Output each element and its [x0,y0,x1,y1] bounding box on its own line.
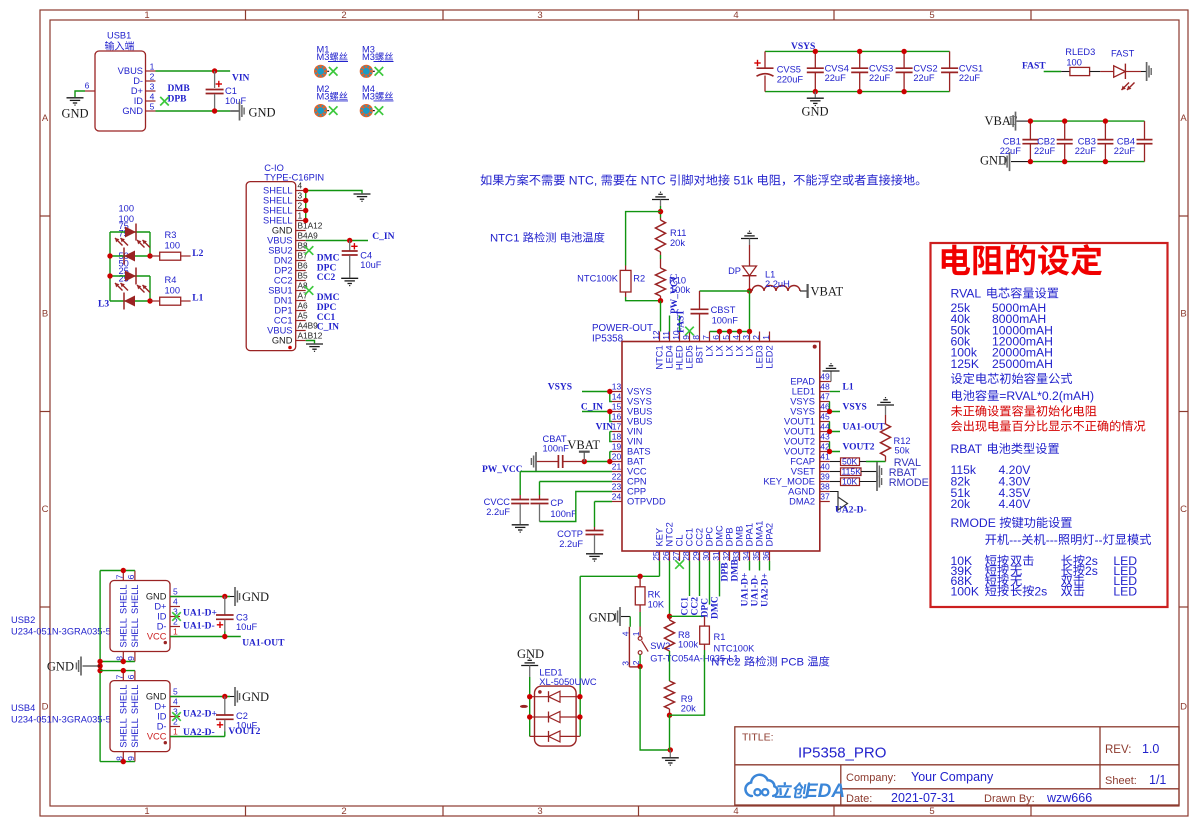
capacitor CVS5 220uF [754,51,803,91]
wire FCAP pin41 [830,461,841,463]
svg-text:R11: R11 [670,228,686,238]
svg-text:GND: GND [146,592,167,602]
svg-text:C: C [1180,504,1187,515]
svg-text:49: 49 [820,372,830,382]
svg-text:B8: B8 [298,241,309,251]
svg-text:DMB: DMB [168,84,191,94]
wire DPA2 pin36 [769,561,771,571]
screw M2 M3螺丝 [314,84,348,117]
port GND usb4 [234,687,236,706]
ground C4 [341,277,358,279]
svg-text:VOUT2: VOUT2 [843,443,875,453]
svg-text:B6: B6 [298,261,309,271]
EasyEDA logo [745,775,845,802]
capacitor CBAT 100nF [536,434,584,468]
svg-text:SHELL: SHELL [263,196,292,206]
svg-text:M3: M3 [362,91,375,101]
svg-text:VOUT1: VOUT1 [784,427,815,437]
svg-text:GND: GND [61,107,88,121]
capacitor CVS2 22uF [896,51,938,91]
svg-text:D-: D- [133,76,143,86]
wire VSYS pins 13/14 [582,391,612,393]
svg-text:BATS: BATS [627,447,651,457]
svg-text:NTC100K: NTC100K [714,644,756,654]
svg-text:GND: GND [249,106,276,120]
port VBAT left [583,453,585,462]
svg-text:EDA: EDA [805,781,845,802]
ground COTP [586,553,603,555]
svg-text:C_IN: C_IN [317,323,339,333]
svg-text:VOUT2: VOUT2 [784,437,815,447]
svg-text:SHELL: SHELL [263,206,292,216]
svg-text:IP5358_PRO: IP5358_PRO [798,745,886,762]
svg-text:2021-07-31: 2021-07-31 [891,791,955,805]
svg-text:FAST: FAST [1022,62,1046,72]
wire OTPVDD pin24 [595,501,613,503]
svg-text:3: 3 [537,806,542,817]
svg-text:4: 4 [298,181,303,191]
svg-text:11: 11 [661,331,671,340]
svg-text:GND: GND [589,611,616,625]
wire gnd A1B12 [306,341,315,344]
svg-text:Drawn By:: Drawn By: [984,793,1035,805]
wire led loop2 [149,276,151,301]
ground main bottom [669,750,671,757]
wire VOUT2 pins43/42 [830,442,841,452]
svg-text:5: 5 [173,687,178,697]
svg-text:DPB: DPB [721,562,731,582]
svg-text:D+: D+ [154,702,166,712]
svg-text:20k: 20k [951,497,972,511]
wire DMA1 pin35 [759,561,761,571]
svg-text:100: 100 [1066,57,1082,67]
svg-text:GND: GND [122,106,143,116]
svg-text:15: 15 [612,402,622,412]
svg-text:R2: R2 [633,274,645,284]
svg-text:SHELL: SHELL [119,685,129,714]
resistor RK 10K [635,576,665,612]
svg-text:L1: L1 [843,383,854,393]
svg-text:VSYS: VSYS [843,403,867,413]
ground CVCC [512,524,529,526]
resistor RLED3 100 [1065,47,1095,76]
svg-text:UA2-D+: UA2-D+ [761,573,771,607]
svg-text:10K: 10K [648,599,665,609]
svg-text:U234-051N-3GRA035-5: U234-051N-3GRA035-5 [11,715,111,725]
svg-text:47: 47 [820,392,830,402]
svg-text:UA1-D+: UA1-D+ [183,609,217,619]
svg-text:34: 34 [741,551,751,561]
svg-text:B: B [1180,309,1186,320]
svg-text:GND: GND [272,226,293,236]
svg-text:Company:: Company: [846,772,896,784]
IC bottom pins [651,521,775,561]
svg-text:EPAD: EPAD [790,377,815,387]
svg-text:Your Company: Your Company [911,770,994,784]
wire led loop1 [109,232,111,301]
svg-text:USB1: USB1 [107,31,131,41]
svg-text:B4A9: B4A9 [298,231,319,241]
wire r11-r10 [660,255,662,259]
svg-text:C2: C2 [236,711,248,721]
svg-text:GND: GND [146,692,167,702]
svg-text:VBUS: VBUS [627,417,652,427]
svg-text:6: 6 [126,674,136,679]
svg-text:2: 2 [341,806,346,817]
LED percent labels [119,204,135,284]
svg-text:DMC: DMC [715,525,725,546]
svg-text:SHELL: SHELL [130,585,140,614]
svg-text:UA2-D-: UA2-D- [835,506,867,516]
resistor R10 100k [656,259,691,301]
svg-text:UA1-D-: UA1-D- [751,575,761,607]
svg-text:Sheet:: Sheet: [1105,775,1137,787]
svg-text:SHELL: SHELL [119,618,129,647]
svg-text:VOUT2: VOUT2 [228,727,260,737]
wire r1 bottom [670,650,705,715]
resistor R9 20k [665,681,697,715]
svg-text:ID: ID [157,712,167,722]
svg-text:5: 5 [150,102,155,112]
svg-text:D: D [1180,702,1187,713]
svg-text:2s: 2s [1034,584,1047,598]
no-connect X pin27 CL [675,560,684,569]
svg-text:CVS3: CVS3 [869,64,893,74]
svg-text:RK: RK [648,590,662,600]
svg-text:DPC: DPC [317,303,337,313]
port RMODE [876,472,878,491]
svg-text:20k: 20k [681,704,696,714]
ground NTC1 top [652,199,669,201]
svg-text:DMB: DMB [735,526,745,547]
wire DPA1 pin34 [749,561,751,571]
LED D-bot2 [124,296,135,307]
svg-text:BST: BST [695,345,705,363]
ground DP top [741,238,758,240]
svg-text:28: 28 [681,551,691,561]
ground A1B12 [306,343,323,345]
svg-text:VSYS: VSYS [790,397,815,407]
svg-text:LED1: LED1 [792,387,815,397]
svg-text:27: 27 [671,551,681,561]
wire UA1-OUT pins45/44 [830,422,841,432]
svg-text:38: 38 [820,482,830,492]
svg-text:35: 35 [751,551,761,561]
wire usb2 shell top [100,570,135,572]
svg-text:7: 7 [115,674,125,679]
svg-text:CC2: CC2 [695,528,705,547]
svg-text:LX: LX [705,345,715,356]
svg-text:D-: D- [157,722,167,732]
svg-text:2: 2 [298,201,303,211]
svg-text:CVS1: CVS1 [959,64,983,74]
svg-text:19: 19 [612,442,622,452]
svg-text:NTC: NTC [637,174,669,188]
svg-text:8: 8 [691,335,701,340]
wire usb2 vcc [170,636,241,638]
no-connect X usb4 ID [172,712,181,721]
svg-text:CVCC: CVCC [484,497,511,507]
svg-text:DMA2: DMA2 [789,497,815,507]
no-connect X USB1 pin4 [160,97,169,106]
wire shell rail left [99,571,101,762]
svg-text:CVS5: CVS5 [777,65,801,75]
svg-text:100: 100 [165,286,181,296]
IC right pins [763,372,830,507]
svg-text:29: 29 [691,551,701,561]
svg-text:OTPVDD: OTPVDD [627,497,666,507]
svg-text:R12: R12 [894,436,911,446]
svg-text:LX: LX [735,345,745,356]
capacitor CVS3 22uF [851,51,893,91]
wire BAT pins 19/20 [584,461,612,463]
svg-text:R9: R9 [681,694,693,704]
wire VIN pins 17/18 [610,431,612,433]
svg-text:DPC: DPC [317,263,337,273]
svg-text:10K: 10K [842,477,858,487]
svg-text:40: 40 [820,462,830,472]
svg-text:FAST: FAST [1111,49,1135,59]
svg-text:CC2: CC2 [274,276,293,286]
resistor R12 50k [881,415,911,462]
svg-text:CC1: CC1 [274,316,293,326]
port PW_VCC [535,452,537,471]
wire VIN net [156,70,231,72]
svg-text:RMODE: RMODE [889,477,929,489]
svg-text:100: 100 [165,241,181,251]
svg-text:30: 30 [701,551,711,561]
svg-text:D+: D+ [154,602,166,612]
svg-text:RBAT: RBAT [951,442,986,456]
svg-text:13: 13 [612,382,622,392]
svg-text:CB1: CB1 [1003,137,1021,147]
svg-text:4: 4 [620,631,630,636]
svg-text:DPB: DPB [168,95,188,105]
svg-text:A: A [1180,113,1187,124]
wire L1 pin48 [830,391,840,393]
capacitor CB4 22uF [1114,121,1153,162]
svg-text:TYPE-C16PIN: TYPE-C16PIN [264,172,324,182]
LED FAST [1111,49,1135,91]
wire ntc top [660,206,662,218]
svg-text:R4: R4 [165,275,177,285]
svg-text:3: 3 [150,82,155,92]
capacitor CB3 22uF [1075,121,1114,162]
wire led1 left [529,677,531,736]
screw M1 M3螺丝 [314,45,348,78]
ground pin6 [67,97,84,99]
wire gnd to sw2 pin4 [629,617,631,627]
wire KEY net [659,561,661,576]
port GND right of C1 [239,102,241,121]
svg-text:ID: ID [134,96,144,106]
svg-text:LED4: LED4 [665,345,675,368]
svg-text:LED3: LED3 [755,345,765,368]
svg-text:4: 4 [173,697,178,707]
wire sw2 bottom [639,655,641,667]
resistor R3 100 [150,230,191,260]
svg-text:CPN: CPN [627,477,647,487]
wire CC1 pin28 [689,561,691,596]
svg-text:R8: R8 [678,630,690,640]
svg-text:VBUS: VBUS [627,407,652,417]
svg-text:PCB: PCB [778,657,808,669]
wire AGND pin38 [830,492,838,498]
svg-text:100nF: 100nF [550,509,577,519]
svg-text:Date:: Date: [846,793,872,805]
svg-text:22uF: 22uF [1114,146,1136,156]
info box 电阻的设定 [931,243,1168,607]
svg-text:22uF: 22uF [825,73,847,83]
svg-text:VSYS: VSYS [627,397,652,407]
svg-text:AGND: AGND [788,487,815,497]
svg-text:UA1-OUT: UA1-OUT [242,639,285,649]
capacitor CP 100nF [531,495,578,522]
wire VSET pin40 [830,471,841,473]
svg-text:1: 1 [173,727,178,737]
screw M4 M3螺丝 [360,84,394,117]
wire SHELL bus [305,191,307,221]
svg-text:NTC100K: NTC100K [577,274,619,284]
svg-text:C3: C3 [236,613,248,623]
svg-text:R1: R1 [714,632,726,642]
svg-text:CVS4: CVS4 [825,64,849,74]
svg-text:6: 6 [126,574,136,579]
svg-text:2: 2 [150,72,155,82]
svg-text:CPP: CPP [627,487,646,497]
wire C_IN pins 15/16 [582,411,612,413]
svg-text:CL: CL [675,535,685,547]
svg-text:SHELL: SHELL [119,585,129,614]
svg-text:SHELL: SHELL [263,216,292,226]
ground EPAD [830,381,831,383]
svg-text:DMB: DMB [731,559,741,582]
LED LED1 XL-5050UWC [520,668,597,747]
svg-text:CBST: CBST [711,305,736,315]
wire CPP pin23 [540,492,613,522]
svg-text:22: 22 [612,472,622,482]
svg-text:2: 2 [341,10,346,21]
capacitor CVS1 22uF [941,51,983,91]
svg-text:16: 16 [612,412,622,422]
IC left pins [612,382,666,507]
svg-text:VBUS: VBUS [267,326,292,336]
svg-text:CVS2: CVS2 [913,64,937,74]
svg-text:CC2: CC2 [691,597,701,616]
LED D-top1 [125,227,136,238]
note text NTC warning [481,174,565,185]
svg-text:=RVAL*0.2(mAH): =RVAL*0.2(mAH) [999,389,1094,403]
svg-text:VIN: VIN [627,427,643,437]
svg-text:1: 1 [144,806,149,817]
svg-text:SBU2: SBU2 [268,246,292,256]
svg-text:COTP: COTP [557,529,583,539]
svg-text:12: 12 [651,330,661,340]
svg-text:9: 9 [126,756,136,761]
wire VSYS rail [765,50,950,52]
svg-text:CB3: CB3 [1078,137,1096,147]
svg-text:L1: L1 [192,294,203,304]
svg-text:GND: GND [517,647,544,661]
wire KEY_MODE pin39 [830,481,841,483]
svg-text:VCC: VCC [627,467,647,477]
svg-text:D-: D- [157,622,167,632]
svg-text:KEY_MODE: KEY_MODE [763,477,815,487]
svg-text:CB4: CB4 [1117,137,1135,147]
svg-text:DPC: DPC [701,598,711,618]
svg-text:21: 21 [612,462,622,472]
svg-text:VSYS: VSYS [790,407,815,417]
svg-text:A5: A5 [298,311,309,321]
svg-text:6: 6 [85,81,90,91]
wire usb2 shell bottom [100,661,135,663]
connector C-IO TYPE-C16PIN [246,163,324,351]
svg-text:L2: L2 [192,249,203,259]
svg-text:M3: M3 [317,52,330,62]
svg-text:GND: GND [801,105,828,119]
svg-text:2.2uF: 2.2uF [559,539,583,549]
wire GND rail [765,91,950,93]
resistor R2 NTC100K [577,266,645,298]
no-connect X A8 [305,286,314,295]
svg-text:VIN: VIN [232,74,250,84]
svg-text:39: 39 [820,472,830,482]
svg-text:GND: GND [242,590,269,604]
ground shell [354,193,371,195]
svg-text:C_IN: C_IN [581,403,603,413]
svg-text:100nF: 100nF [712,316,739,326]
svg-text:VCC: VCC [147,632,167,642]
connector USB2 U234-051N-3GRA035-5 [11,581,170,652]
svg-text:9: 9 [126,656,136,661]
svg-text:UA2-D+: UA2-D+ [183,710,217,720]
svg-text:51k: 51k [730,174,756,188]
svg-text:5: 5 [721,335,731,340]
svg-text:VOUT1: VOUT1 [784,417,815,427]
svg-text:VSET: VSET [791,467,816,477]
svg-text:DMC: DMC [317,293,340,303]
svg-text:31: 31 [711,551,721,561]
svg-text:D+: D+ [131,86,143,96]
svg-text:2: 2 [751,335,761,340]
wire BST [700,290,750,292]
svg-text:A8: A8 [298,281,309,291]
svg-text:DP2: DP2 [274,266,292,276]
svg-text:20k: 20k [670,238,685,248]
svg-text:CC2: CC2 [317,273,336,283]
port GND usb2 [234,587,236,606]
port FAST flag [1146,62,1148,81]
no-connect X B8 [305,246,314,255]
svg-text:ID: ID [157,612,167,622]
svg-text:4: 4 [173,597,178,607]
LED D-mid1 [124,251,135,262]
svg-text:SHELL: SHELL [263,186,292,196]
wire pin11 stub + label PW_VCC [669,316,671,332]
svg-text:14: 14 [612,392,622,402]
svg-text:VSYS: VSYS [791,42,815,52]
svg-text:4.40V: 4.40V [999,497,1032,511]
svg-text:RLED3: RLED3 [1065,47,1095,57]
svg-text:SHELL: SHELL [130,718,140,747]
svg-text:C: C [42,504,49,515]
svg-text:1/1: 1/1 [1149,773,1166,787]
capacitor C2 10uF [216,697,258,737]
no-connect X pin9 LED5 [685,327,694,336]
port AGND flag [838,497,848,510]
svg-text:18: 18 [612,432,622,442]
svg-text:22uF: 22uF [913,73,935,83]
